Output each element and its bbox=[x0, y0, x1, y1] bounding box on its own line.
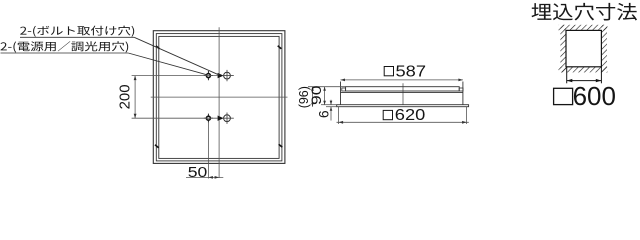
dimension (96) dim line bbox=[312, 87, 314, 107]
dimension 50 extension line from bolt hole bbox=[207, 123, 209, 179]
dimension 6 outside arrows bbox=[330, 100, 332, 105]
mounting-spring tick mark 4 bbox=[279, 144, 283, 147]
mounting-spring tick mark 3 bbox=[155, 145, 159, 148]
svg-text:50: 50 bbox=[188, 164, 208, 179]
svg-text:620: 620 bbox=[395, 106, 425, 123]
dimension 50 dim line bbox=[186, 176, 223, 178]
svg-text:90: 90 bbox=[310, 85, 325, 105]
extension line at bar top bbox=[308, 86, 346, 88]
mounting-spring tick mark 1 bbox=[156, 46, 160, 49]
extension line at flange bottom bbox=[326, 106, 337, 108]
dimension 620 extension line left bbox=[338, 107, 340, 124]
label text 2-(電源用／調光用穴) bbox=[0, 41, 128, 52]
svg-text:587: 587 bbox=[396, 63, 426, 80]
body right edge bbox=[462, 82, 464, 105]
leader arrowhead row 2 bbox=[218, 116, 224, 121]
label2 underline bbox=[1, 52, 129, 54]
fixture panel inner square bbox=[159, 36, 279, 158]
dimension 620 dim line bbox=[337, 121, 469, 123]
svg-text:6: 6 bbox=[315, 110, 331, 118]
fixture frame middle square bbox=[156, 34, 282, 161]
extension line at flange top bbox=[321, 104, 337, 106]
panel bar (side view) bbox=[346, 87, 460, 91]
dimension 620 extension line right bbox=[466, 107, 468, 124]
power/dimming hole circle row 1 bbox=[224, 72, 231, 79]
dimension 200 extension line top bbox=[132, 75, 218, 77]
label1 underline bbox=[20, 36, 134, 38]
mounting-spring tick mark 2 bbox=[278, 46, 282, 49]
vertical centerline bbox=[218, 27, 220, 178]
panel bar right end cap bbox=[459, 88, 463, 91]
leader line from label1 to bolt hole arrow bbox=[134, 37, 219, 75]
body left edge bbox=[340, 82, 342, 105]
bolt hole small circle row 1 bbox=[206, 74, 210, 78]
flange strip bbox=[337, 105, 469, 107]
leader line from label2 to small circle bbox=[128, 53, 206, 75]
panel bar left end cap bbox=[342, 88, 346, 91]
body top line bbox=[341, 92, 463, 94]
horizontal centerline bbox=[151, 96, 288, 98]
side view centerline bbox=[402, 83, 404, 105]
cutout square bbox=[566, 30, 601, 66]
dimension text square-600 bbox=[554, 88, 573, 104]
dimension 90 dim line bbox=[324, 87, 326, 105]
leader arrowhead row 1 bbox=[218, 73, 224, 78]
dimension 587 dim line bbox=[341, 79, 463, 81]
dimension text square-620 bbox=[383, 110, 392, 119]
dimension 600 extension lines bbox=[566, 67, 568, 84]
svg-text:600: 600 bbox=[573, 81, 616, 111]
title text 埋込穴寸法 bbox=[531, 3, 637, 21]
dimension 200 extension line bottom bbox=[132, 117, 218, 119]
dimension text square-587 bbox=[384, 67, 393, 76]
power/dimming hole circle row 2 bbox=[224, 115, 231, 122]
fixture outline outer square (plan view) bbox=[153, 31, 285, 164]
svg-text:200: 200 bbox=[117, 84, 134, 109]
dimension 600 double arrow bbox=[567, 80, 602, 82]
bolt hole small circle row 2 bbox=[206, 116, 210, 120]
dimension 200 dim line bbox=[134, 76, 136, 119]
label text 2-(ボルト取付け穴) bbox=[20, 26, 134, 37]
